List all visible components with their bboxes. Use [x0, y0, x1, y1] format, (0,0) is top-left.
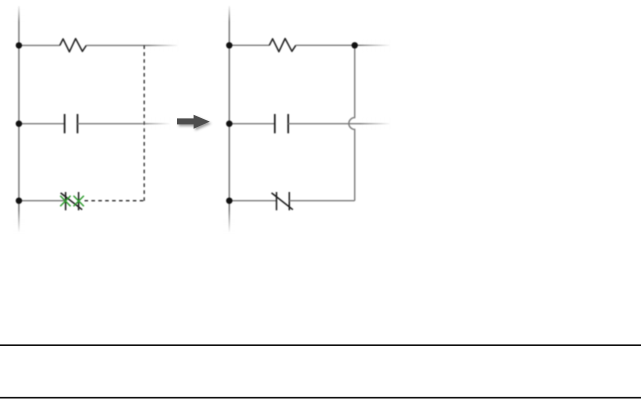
resistor R1	[60, 39, 87, 52]
wire: left circuit bottom branch lead, node to component	[19, 200, 66, 202]
wire: right circuit bottom branch, component to right corner	[289, 200, 354, 202]
wire: left circuit middle branch stub after capacitor (fading end)	[78, 123, 171, 125]
wire: right circuit top branch, resistor to right corner	[296, 44, 355, 46]
wire: right circuit middle branch lead, node to capacitor	[229, 123, 274, 125]
deletion mark X (green) on N1 left pin	[60, 196, 70, 206]
fade mask: left vertical bottom end	[12, 210, 26, 233]
deletion mark X (green) on N1 right pin	[74, 196, 84, 206]
fade mask: right vertical top end	[222, 4, 236, 22]
fade mask: left vertical top end	[12, 4, 26, 22]
fade mask: left middle wire end	[140, 117, 171, 130]
wire: dashed horizontal segment of removed connection	[85, 200, 145, 202]
node: left circuit middle junction	[16, 121, 22, 127]
wire: right circuit right vertical with hop over middle wire	[349, 45, 355, 200]
wire: left circuit left vertical bus	[18, 6, 20, 232]
node: right circuit bottom-left junction	[226, 198, 232, 204]
arrow between circuits	[177, 115, 210, 129]
wire: dashed vertical segment of removed connection	[143, 45, 145, 200]
wire: left circuit top branch stub after resistor (fading end)	[86, 44, 178, 46]
rule: bottom horizontal divider line	[0, 397, 641, 399]
capacitor C1	[65, 114, 78, 133]
wire: right circuit middle branch through crossover (fading end)	[288, 123, 390, 125]
node: left circuit top junction	[16, 42, 22, 48]
fade mask: right vertical bottom end	[222, 210, 236, 233]
component N1 (deleted element symbol)	[61, 192, 83, 210]
component N2	[272, 192, 293, 210]
wire: right circuit top branch lead, node to resistor	[229, 44, 269, 46]
resistor R2	[269, 39, 296, 52]
fade mask: right top extension end	[360, 39, 391, 52]
wire: right circuit top extension beyond junction (fading end)	[355, 44, 390, 46]
wire: right circuit left vertical bus	[228, 6, 230, 232]
node: left circuit bottom junction	[16, 198, 22, 204]
wire: right circuit bottom branch lead, node to component	[229, 200, 276, 202]
wire: left circuit top branch lead, node to resistor	[19, 44, 60, 46]
fade mask: left top wire end	[148, 39, 179, 52]
node: right circuit middle-left junction	[226, 121, 232, 127]
fade mask: right middle extension end	[360, 117, 391, 130]
capacitor C2	[275, 114, 288, 133]
rule: upper horizontal divider line	[0, 344, 641, 346]
node: right circuit top-left junction	[226, 42, 232, 48]
node: right circuit top-right junction	[352, 42, 358, 48]
wire: left circuit middle branch lead, node to capacitor	[19, 123, 65, 125]
